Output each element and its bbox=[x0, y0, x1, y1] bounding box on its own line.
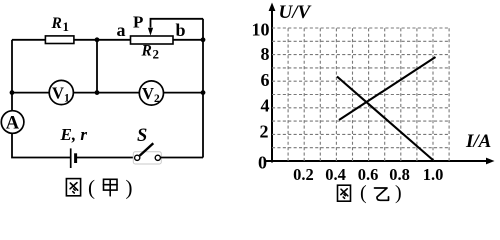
svg-text:8: 8 bbox=[261, 44, 270, 64]
svg-text:R: R bbox=[51, 15, 62, 32]
svg-text:V: V bbox=[52, 84, 64, 103]
svg-text:b: b bbox=[176, 20, 186, 40]
wiper P arrow bbox=[148, 28, 153, 36]
graph x-axis I bbox=[266, 160, 488, 162]
svg-text:0.2: 0.2 bbox=[293, 165, 314, 184]
svg-text:10: 10 bbox=[252, 19, 270, 39]
svg-text:a: a bbox=[117, 20, 126, 40]
svg-text:R: R bbox=[141, 43, 152, 60]
wire V1 to V2 bbox=[73, 92, 139, 94]
wire left vertical upper bbox=[11, 40, 13, 111]
svg-text:): ) bbox=[395, 182, 402, 204]
switch S lever bbox=[140, 143, 154, 156]
svg-text:P: P bbox=[133, 13, 143, 32]
resistor R1 bbox=[45, 36, 74, 44]
caption 图（乙） glyph 乙 bbox=[375, 188, 389, 200]
svg-text:I/A: I/A bbox=[465, 131, 491, 152]
svg-text:0.4: 0.4 bbox=[325, 165, 346, 184]
wire voltmeter row left bbox=[12, 92, 49, 94]
y tick labels bbox=[252, 19, 270, 172]
svg-text:1: 1 bbox=[64, 93, 70, 105]
svg-text:1.0: 1.0 bbox=[423, 165, 444, 184]
svg-text:2: 2 bbox=[153, 47, 160, 62]
voltmeter V1 bbox=[49, 80, 73, 104]
wiper P slider wire bbox=[151, 19, 204, 28]
graph line falling (source U-I) bbox=[337, 77, 434, 161]
x tick labels bbox=[293, 165, 443, 184]
wire top-left horizontal (battery+ to R1) bbox=[12, 39, 45, 41]
svg-text:V: V bbox=[142, 84, 154, 103]
svg-text:(: ( bbox=[360, 182, 367, 204]
wire right vertical bbox=[202, 19, 204, 158]
graph gridlines vertical bbox=[288, 28, 449, 161]
svg-text:S: S bbox=[137, 126, 147, 146]
switch S left contact bbox=[135, 155, 140, 160]
caption 图（乙） glyph 图 bbox=[338, 185, 351, 201]
svg-text:2: 2 bbox=[260, 122, 269, 142]
svg-text:4: 4 bbox=[261, 96, 270, 116]
node junction top-right bbox=[201, 37, 206, 42]
voltmeter V2 bbox=[139, 81, 163, 105]
svg-text:2: 2 bbox=[154, 93, 160, 105]
wire battery to switch bbox=[77, 157, 135, 159]
switch S right contact bbox=[155, 155, 160, 160]
wire V2 to right vertical bbox=[164, 92, 204, 94]
graph y-axis U bbox=[271, 7, 273, 163]
caption 图（甲） glyph 图 bbox=[66, 179, 80, 196]
ammeter A bbox=[1, 111, 24, 134]
graph gridlines horizontal bbox=[272, 28, 449, 148]
switch S highlight box bbox=[133, 152, 161, 164]
node junction left voltmeter row bbox=[10, 90, 15, 95]
battery E,r positive plate bbox=[70, 148, 72, 168]
wire middle vertical bbox=[96, 40, 98, 93]
svg-text:0: 0 bbox=[258, 152, 267, 172]
svg-text:U/V: U/V bbox=[279, 2, 312, 23]
battery E,r negative plate bbox=[74, 153, 77, 163]
node junction middle voltmeter row bbox=[95, 90, 100, 95]
wire R1 to R2 bbox=[74, 39, 131, 41]
caption 图（甲） glyph 甲 bbox=[104, 179, 118, 196]
wire R2 right terminal bbox=[173, 39, 203, 41]
svg-text:(: ( bbox=[88, 176, 95, 200]
rheostat R2 body bbox=[131, 36, 174, 44]
node junction right voltmeter row bbox=[201, 90, 206, 95]
wire left vertical lower bbox=[12, 133, 70, 157]
wire switch to right vertical bbox=[160, 157, 203, 159]
graph line rising (resistor U-I) bbox=[339, 57, 436, 120]
node junction top-middle bbox=[95, 37, 100, 42]
svg-text:6: 6 bbox=[261, 70, 270, 90]
svg-text:): ) bbox=[126, 176, 133, 200]
svg-text:E, r: E, r bbox=[60, 125, 88, 144]
svg-text:A: A bbox=[6, 114, 20, 134]
svg-text:1: 1 bbox=[63, 19, 70, 34]
